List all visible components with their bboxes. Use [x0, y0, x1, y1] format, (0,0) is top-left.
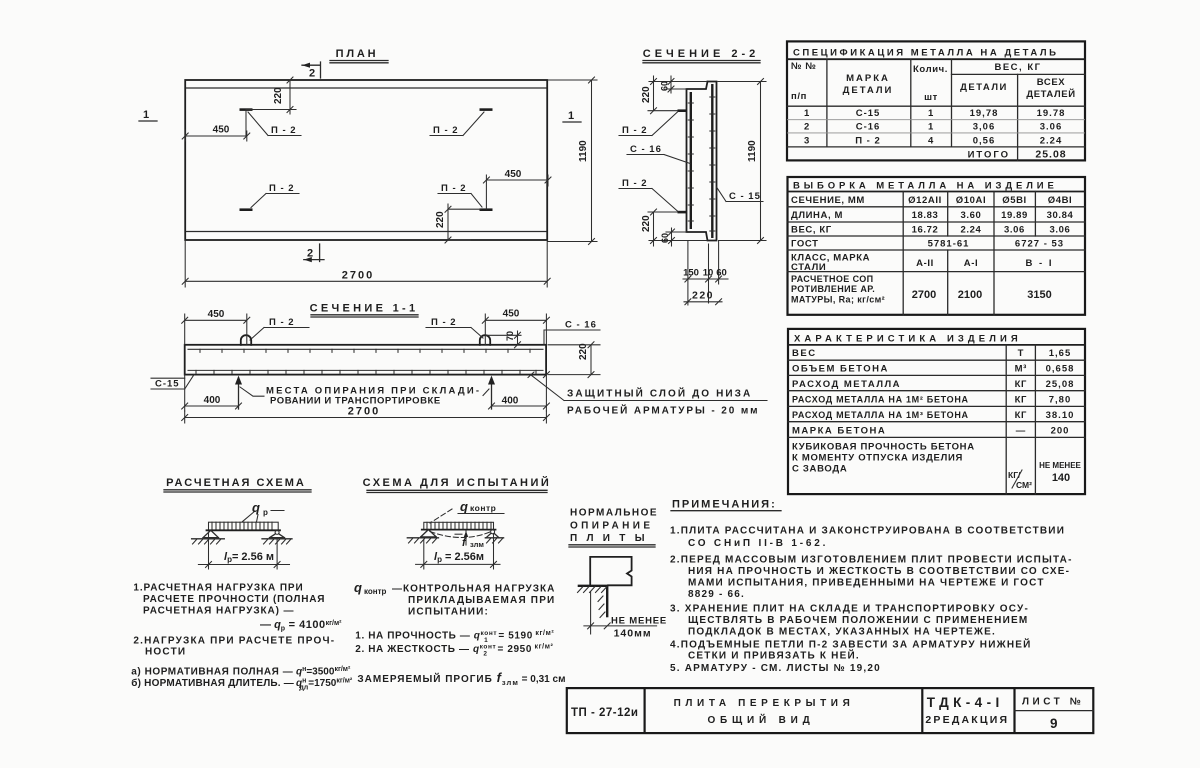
table 1 header rule: [787, 105, 1085, 107]
plan slab outline: [185, 80, 547, 240]
dim 60 top of section: [666, 76, 687, 93]
dim 450 right plan: [486, 175, 548, 209]
svg-text:злм: злм: [470, 540, 484, 549]
svg-text:РАСХОД МЕТАЛЛА: РАСХОД МЕТАЛЛА: [792, 379, 901, 390]
svg-text:30.84: 30.84: [1047, 210, 1074, 221]
svg-text:СТАЛИ: СТАЛИ: [791, 262, 826, 273]
svg-text:q: q: [460, 499, 468, 514]
svg-text:НЕ МЕНЕЕ: НЕ МЕНЕЕ: [611, 616, 667, 627]
svg-text:220: 220: [692, 290, 714, 302]
svg-text:ОБЩИЙ ВИД: ОБЩИЙ ВИД: [707, 713, 814, 726]
test right support: [491, 530, 495, 534]
svg-text:СМ²: СМ²: [1016, 480, 1032, 490]
label C-15 left with leader: [151, 375, 194, 389]
dim 450 right of section 1-1: [485, 314, 546, 345]
svg-text:КУБИКОВАЯ ПРОЧНОСТЬ БЕТОНА: КУБИКОВАЯ ПРОЧНОСТЬ БЕТОНА: [792, 442, 975, 453]
calc load strip hatching: [212, 522, 272, 530]
svg-text:Ø10АI: Ø10АI: [956, 195, 986, 206]
bearing dimension: [584, 592, 657, 634]
bearing wall top line: [578, 585, 608, 587]
svg-text:200: 200: [1051, 426, 1070, 437]
dim 1190 right plan: [548, 80, 597, 242]
table 1 vec kg split rule: [952, 73, 1086, 75]
svg-text:СЕТКИ И ПРИВЯЗАТЬ К Н: СЕТКИ И ПРИВЯЗАТЬ К НЕЙ.: [688, 649, 860, 662]
table 3 title rule: [788, 344, 1085, 346]
svg-text:СХЕМА ДЛЯ ИСПЫТАНИЙ: СХЕМА ДЛЯ ИСПЫТАНИЙ: [363, 476, 552, 489]
lifting loop mark bottom-right: [480, 208, 493, 211]
svg-text:8829 - 66.: 8829 - 66.: [688, 589, 745, 600]
section mark 2 bottom: [304, 244, 324, 262]
svg-text:450: 450: [213, 125, 230, 136]
dim 450 left of section 1-1: [185, 314, 247, 345]
svg-text:220: 220: [578, 343, 589, 360]
svg-text:ИСПЫТАНИИ:: ИСПЫТАНИИ:: [408, 607, 489, 618]
svg-text:1190: 1190: [578, 140, 589, 162]
svg-text:ПОДКЛАДОК В МЕСТАХ, УКАЗАННЫ: ПОДКЛАДОК В МЕСТАХ, УКАЗАННЫХ НА ЧЕРТЕЖЕ…: [688, 627, 996, 638]
svg-text:СЕЧЕНИЕ 1-1: СЕЧЕНИЕ 1-1: [310, 303, 419, 315]
svg-text:ВЫБОРКА МЕТАЛЛА НА ИЗДЕЛИЕ: ВЫБОРКА МЕТАЛЛА НА ИЗДЕЛИЕ: [793, 181, 1058, 192]
svg-text:р: р: [263, 508, 268, 517]
svg-text:ХАРАКТЕРИСТИКА ИЗДЕЛИЯ: ХАРАКТЕРИСТИКА ИЗДЕЛИЯ: [794, 334, 1022, 345]
svg-text:МАРКА: МАРКА: [846, 73, 890, 84]
svg-text:5781-61: 5781-61: [928, 239, 970, 250]
plan inner rib line bottom: [187, 231, 547, 233]
beam bottom rebar ticks: [196, 370, 536, 373]
beam outline: [185, 345, 546, 375]
section mark 2 top: [302, 62, 321, 78]
svg-text:2700: 2700: [342, 270, 374, 282]
svg-text:6727 - 53: 6727 - 53: [1015, 239, 1064, 250]
svg-text:400: 400: [204, 395, 221, 406]
PLAN GROUP: [139, 48, 597, 287]
beam bottom rebar line: [188, 369, 543, 371]
dim 70 loop height: [485, 331, 521, 345]
dim 60 bottom of section: [666, 228, 687, 246]
svg-text:19,78: 19,78: [970, 108, 999, 119]
svg-text:60: 60: [660, 233, 670, 243]
svg-text:РОТИВЛЕНИЕ АР.: РОТИВЛЕНИЕ АР.: [791, 284, 875, 294]
svg-text:19.89: 19.89: [1001, 210, 1028, 221]
svg-text:q: q: [252, 500, 260, 515]
svg-text:2.24: 2.24: [1040, 136, 1063, 147]
svg-text:СЕЧЕНИЕ, ММ: СЕЧЕНИЕ, ММ: [791, 195, 865, 206]
SCHEMES GROUP: [131, 476, 565, 692]
dim 1190 right of section: [718, 82, 766, 241]
table 2 title rule: [788, 191, 1086, 193]
svg-text:450: 450: [503, 309, 520, 320]
svg-text:П - 2: П - 2: [433, 125, 459, 136]
svg-text:3150: 3150: [1027, 289, 1051, 301]
svg-text:Т: Т: [1018, 348, 1024, 359]
svg-text:19.78: 19.78: [1037, 108, 1066, 119]
svg-text:—: —: [1016, 426, 1026, 437]
support arrow left: [238, 383, 240, 409]
beam top rebar line: [188, 348, 543, 350]
dim 220 top-left of section: [648, 76, 706, 111]
svg-text:ПРИКЛАДЫВАЕМАЯ ПРИ: ПРИКЛАДЫВАЕМАЯ ПРИ: [408, 595, 555, 606]
svg-text:А-I: А-I: [964, 258, 978, 269]
calc span dimension: [198, 532, 289, 569]
svg-text:0,658: 0,658: [1046, 364, 1075, 375]
svg-text:контр: контр: [364, 587, 387, 596]
svg-text:7,80: 7,80: [1049, 395, 1072, 406]
svg-text:3: 3: [804, 136, 810, 147]
svg-text:ВЕС, КГ: ВЕС, КГ: [994, 62, 1041, 73]
lifting loop mark top-left: [240, 108, 253, 111]
table 3 row rules: [788, 360, 1085, 437]
dim 220 right of section 1-1: [548, 345, 600, 375]
table 2 metal outer box: [788, 177, 1086, 315]
rebar C-16 tick marks: [688, 103, 693, 221]
svg-text:140: 140: [1052, 472, 1070, 484]
lifting loop left on beam: [241, 335, 251, 345]
svg-text:КГ: КГ: [1015, 395, 1027, 406]
plan inner rib line top: [187, 87, 547, 89]
svg-text:П - 2: П - 2: [269, 183, 295, 194]
table 3 column lines: [1006, 345, 1035, 494]
svg-text:1,65: 1,65: [1049, 348, 1072, 359]
svg-text:lр = 2.56м: lр = 2.56м: [434, 551, 484, 564]
svg-text:контр: контр: [470, 503, 496, 513]
svg-text:НИЯ НА ПРОЧНОСТЬ И ЖЕСТКОСТ: НИЯ НА ПРОЧНОСТЬ И ЖЕСТКОСТЬ В СООТВЕТСТ…: [688, 566, 1070, 577]
support arrow right: [491, 383, 493, 409]
svg-text:ДЛИНА, М: ДЛИНА, М: [791, 210, 843, 221]
svg-text:1: 1: [928, 108, 934, 119]
svg-text:140мм: 140мм: [614, 628, 652, 640]
rebar C-15 tick marks: [710, 97, 715, 231]
svg-text:25,08: 25,08: [1046, 379, 1075, 390]
svg-text:38.10: 38.10: [1046, 410, 1075, 421]
svg-text:М³: М³: [1015, 364, 1027, 375]
svg-text:С - 16: С - 16: [565, 320, 597, 331]
svg-text:ЛИСТ №: ЛИСТ №: [1022, 697, 1084, 708]
calc scheme title underline: [164, 490, 311, 492]
table 1 title rule: [787, 58, 1085, 60]
svg-text:Ø4ВI: Ø4ВI: [1048, 195, 1073, 206]
deflection arrow f zlm: [465, 531, 467, 545]
TITLEBLOCK GROUP: [567, 688, 1094, 733]
svg-text:МАТУРЫ, Ra; кг/см²: МАТУРЫ, Ra; кг/см²: [791, 295, 885, 305]
dim 220 bottom-left of section: [648, 212, 707, 246]
svg-text:НОРМАЛЬНОЕ: НОРМАЛЬНОЕ: [570, 508, 658, 519]
svg-text:2.24: 2.24: [961, 225, 982, 236]
calc load strip: [209, 522, 279, 530]
svg-text:220: 220: [273, 87, 284, 104]
svg-text:б) НОРМАТИВНАЯ ДЛИТЕЛЬ. —: б) НОРМАТИВНАЯ ДЛИТЕЛЬ. —: [131, 677, 294, 689]
calc beam line: [207, 529, 281, 531]
svg-text:3. ХРАНЕНИЕ ПЛИТ НА СКЛАДЕ: 3. ХРАНЕНИЕ ПЛИТ НА СКЛАДЕ И ТРАНСПОРТИР…: [670, 604, 1029, 615]
svg-text:25.08: 25.08: [1035, 149, 1066, 161]
svg-text:ПЛАН: ПЛАН: [336, 48, 379, 60]
svg-text:1.РАСЧЕТНАЯ НАГРУЗКА ПРИ: 1.РАСЧЕТНАЯ НАГРУЗКА ПРИ: [133, 583, 303, 594]
svg-text:СПЕЦИФИКАЦИЯ МЕТАЛЛА НА ДЕТ: СПЕЦИФИКАЦИЯ МЕТАЛЛА НА ДЕТАЛЬ: [793, 48, 1059, 59]
svg-text:10: 10: [703, 268, 714, 279]
svg-text:1: 1: [928, 122, 934, 133]
svg-text:А-II: А-II: [916, 258, 934, 269]
svg-text:П - 2: П - 2: [855, 136, 881, 147]
svg-text:9: 9: [1050, 716, 1058, 731]
section 1-1 title underline: [311, 315, 418, 317]
dim 220 bottom-right vertical: [448, 204, 481, 240]
svg-text:ИТОГО: ИТОГО: [968, 150, 1010, 161]
lifting loop right on beam: [480, 335, 490, 345]
NOTES GROUP: [670, 499, 1073, 675]
svg-text:РАСЧЕТЕ ПРОЧНОСТИ (ПОЛНАЯ: РАСЧЕТЕ ПРОЧНОСТИ (ПОЛНАЯ: [143, 594, 325, 605]
svg-text:МАМИ ИСПЫТАНИЯ, ПРИВЕДЕННЫМИ: МАМИ ИСПЫТАНИЯ, ПРИВЕДЕННЫМИ НА ЧЕРТЕЖЕ …: [688, 578, 1045, 589]
svg-text:ТДК-4-I: ТДК-4-I: [927, 695, 1004, 710]
dim 2700 bottom plan: [185, 240, 547, 287]
svg-text:1.ПЛИТА РАССЧИТАНА И ЗАКОНСТР: 1.ПЛИТА РАССЧИТАНА И ЗАКОНСТРУИРОВАНА В …: [670, 526, 1065, 537]
svg-text:220: 220: [435, 211, 446, 228]
svg-text:Колич.: Колич.: [913, 64, 948, 75]
svg-text:Ø5ВI: Ø5ВI: [1002, 195, 1027, 206]
test right support ground: [485, 537, 503, 539]
calc left support ground: [192, 538, 225, 540]
svg-text:ДЕТАЛИ: ДЕТАЛИ: [843, 85, 894, 96]
svg-text:СЕЧЕНИЕ 2-2: СЕЧЕНИЕ 2-2: [643, 48, 760, 60]
svg-text:5. АРМАТУРУ - СМ. ЛИСТЫ №: 5. АРМАТУРУ - СМ. ЛИСТЫ № 19,20: [670, 663, 881, 674]
deflection dashed curve: [430, 532, 491, 538]
dim 400 left: [185, 375, 239, 411]
svg-text:3,06: 3,06: [973, 122, 996, 133]
svg-text:60: 60: [716, 268, 727, 279]
test load strip: [424, 522, 494, 529]
svg-text:ВЕС: ВЕС: [792, 348, 817, 359]
svg-text:РАБОЧЕЙ АРМАТУРЫ - 20 мм: РАБОЧЕЙ АРМАТУРЫ - 20 мм: [567, 404, 759, 417]
svg-text:2: 2: [804, 122, 810, 133]
q kontr dashed leader: [430, 509, 452, 523]
svg-text:2.НАГРУЗКА ПРИ РАСЧЕТЕ ПРОЧ-: 2.НАГРУЗКА ПРИ РАСЧЕТЕ ПРОЧ-: [133, 636, 335, 647]
table 3 characteristics outer box: [788, 329, 1085, 494]
test left support ground: [407, 537, 438, 539]
svg-text:3.60: 3.60: [961, 210, 982, 221]
svg-text:РАСЧЕТНАЯ СХЕМА: РАСЧЕТНАЯ СХЕМА: [166, 477, 306, 489]
plan title underline: [330, 61, 388, 63]
dim 400 right: [492, 375, 547, 411]
lifting loop top in section: [678, 109, 687, 112]
svg-text:2: 2: [309, 68, 315, 80]
svg-text:18.83: 18.83: [912, 210, 939, 221]
table 2 row rules: [788, 207, 1086, 272]
svg-text:П - 2: П - 2: [622, 178, 648, 189]
table 1 column lines: [827, 59, 1018, 160]
table 2 column lines: [903, 192, 1035, 315]
bearing slab outline with break: [590, 557, 631, 585]
svg-text:2РЕДАКЦИЯ: 2РЕДАКЦИЯ: [925, 714, 1009, 726]
svg-text:П - 2: П - 2: [269, 317, 295, 328]
svg-text:П - 2: П - 2: [441, 183, 467, 194]
dim 220 top-left vertical: [246, 80, 296, 136]
svg-text:П - 2: П - 2: [622, 125, 648, 136]
svg-text:КГ: КГ: [1015, 410, 1027, 421]
svg-text:3.06: 3.06: [1040, 122, 1063, 133]
svg-text:ДЕТАЛЕЙ: ДЕТАЛЕЙ: [1026, 88, 1075, 100]
svg-text:2: 2: [307, 248, 313, 260]
svg-text:16.72: 16.72: [912, 225, 939, 236]
svg-text:ПЛИТА ПЕРЕКРЫТИЯ: ПЛИТА ПЕРЕКРЫТИЯ: [674, 698, 855, 709]
svg-text:ДЕТАЛИ: ДЕТАЛИ: [960, 82, 1008, 93]
svg-text:3.06: 3.06: [1004, 225, 1025, 236]
test left support: [421, 530, 437, 537]
title block dividers: [645, 688, 1015, 733]
svg-text:МАРКА БЕТОНА: МАРКА БЕТОНА: [792, 426, 886, 437]
svg-text:3.06: 3.06: [1050, 225, 1071, 236]
svg-text:П - 2: П - 2: [431, 317, 457, 328]
svg-text:РАСХОД МЕТАЛЛА НА 1М³ БЕТОН: РАСХОД МЕТАЛЛА НА 1М³ БЕТОНА: [792, 410, 969, 420]
svg-text:ПРИМЕЧАНИЯ:: ПРИМЕЧАНИЯ:: [672, 499, 777, 511]
svg-text:РАСХОД МЕТАЛЛА НА 1М² БЕТО: РАСХОД МЕТАЛЛА НА 1М² БЕТОНА: [792, 395, 969, 405]
svg-text:—КОНТРОЛЬНАЯ НАГРУЗКА: —КОНТРОЛЬНАЯ НАГРУЗКА: [392, 584, 555, 595]
test span dimension: [416, 534, 500, 569]
lifting loop bottom in section: [678, 211, 687, 214]
rebar mesh C-15 bar: [711, 84, 713, 238]
svg-text:а) НОРМАТИВНАЯ ПОЛНАЯ —: а) НОРМАТИВНАЯ ПОЛНАЯ —: [131, 667, 293, 678]
svg-text:шт: шт: [924, 92, 938, 103]
dim 150 10 60 below section: [683, 241, 728, 306]
svg-text:НЕ МЕНЕЕ: НЕ МЕНЕЕ: [1039, 461, 1081, 470]
svg-text:1: 1: [143, 109, 149, 121]
BEARING GROUP: [569, 508, 667, 640]
svg-text:ОПИРАНИЕ: ОПИРАНИЕ: [570, 521, 653, 532]
svg-text:2700: 2700: [912, 289, 936, 301]
svg-text:1190: 1190: [747, 140, 758, 162]
svg-text:ОБЪЕМ БЕТОНА: ОБЪЕМ БЕТОНА: [792, 364, 889, 375]
SECTION 1-1 GROUP: [151, 303, 767, 424]
svg-text:п/п: п/п: [791, 91, 807, 102]
svg-text:400: 400: [502, 396, 519, 407]
svg-text:С - 15: С - 15: [729, 191, 761, 202]
svg-text:ЗАЩИТНЫЙ СЛОЙ ДО НИЗА: ЗАЩИТНЫЙ СЛОЙ ДО НИЗА: [567, 387, 752, 400]
svg-text:60: 60: [660, 81, 670, 91]
beam top rebar ticks: [200, 349, 530, 352]
svg-text:2.ПЕРЕД МАССОВЫМ ИЗГОТОВЛЕНИЕ: 2.ПЕРЕД МАССОВЫМ ИЗГОТОВЛЕНИЕМ ПЛИТ ПРОВ…: [670, 555, 1073, 566]
test beam line: [422, 529, 496, 531]
svg-text:С-16: С-16: [856, 122, 881, 133]
dim 220 bottom of section: [684, 301, 722, 303]
svg-text:220: 220: [641, 215, 652, 232]
svg-text:С - 16: С - 16: [630, 144, 662, 155]
title block outer box: [567, 688, 1094, 733]
svg-text:ТП - 27-12и: ТП - 27-12и: [571, 707, 639, 719]
table 1 spec outer box: [787, 41, 1085, 160]
SECTION 2-2 GROUP: [619, 48, 766, 305]
calc right support: [275, 530, 279, 534]
svg-text:0,56: 0,56: [973, 136, 996, 147]
lifting loop mark bottom-left: [240, 208, 253, 211]
protective layer leader: [531, 375, 767, 401]
svg-text:СО СНиП II-В 1-62.: СО СНиП II-В 1-62.: [688, 538, 828, 549]
svg-text:450: 450: [505, 169, 522, 180]
calc left support: [203, 530, 219, 537]
table 1 row rules: [787, 120, 1085, 133]
svg-text:ПЛИТЫ: ПЛИТЫ: [570, 533, 654, 544]
svg-text:lр= 2.56 м: lр= 2.56 м: [224, 551, 274, 564]
section 2-2 slab outline: [687, 82, 717, 241]
svg-text:РАСЧЕТНАЯ НАГРУЗКА) —: РАСЧЕТНАЯ НАГРУЗКА) —: [143, 605, 294, 616]
section 2-2 title underline: [643, 61, 760, 63]
svg-text:ЩЕСТВЛЯТЬ В РАБОЧЕМ ПОЛОЖЕН: ЩЕСТВЛЯТЬ В РАБОЧЕМ ПОЛОЖЕНИИ С ПРИМЕНЕН…: [688, 615, 1028, 626]
bearing wall face line: [606, 586, 608, 618]
svg-text:220: 220: [641, 86, 652, 103]
svg-text:ВСЕХ: ВСЕХ: [1037, 77, 1065, 88]
svg-text:150: 150: [683, 268, 699, 279]
qp label with leader: [242, 511, 284, 523]
bearing heading underline: [569, 545, 655, 547]
svg-text:ВЕС, КГ: ВЕС, КГ: [791, 225, 832, 236]
svg-text:Ø12АII: Ø12АII: [908, 195, 942, 206]
svg-text:В - I: В - I: [1026, 258, 1054, 269]
svg-text:4.ПОДЪЕМНЫЕ ПЕТЛИ П-2 ЗАВЕСТ: 4.ПОДЪЕМНЫЕ ПЕТЛИ П-2 ЗАВЕСТИ ЗА АРМАТУР…: [670, 638, 1032, 651]
bearing wall hatching: [578, 587, 608, 618]
calc right support ground: [262, 538, 292, 540]
dim 450 left plan: [185, 130, 247, 141]
svg-text:q: q: [354, 580, 362, 595]
svg-text:450: 450: [208, 309, 225, 320]
svg-text:С-15: С-15: [155, 379, 180, 390]
svg-text:1: 1: [804, 108, 810, 119]
svg-text:С-15: С-15: [856, 108, 881, 119]
svg-text:1: 1: [568, 110, 574, 122]
svg-text:РАСЧЕТНОЕ СОП: РАСЧЕТНОЕ СОП: [791, 274, 874, 284]
svg-text:К МОМЕНТУ ОТПУСКА ИЗДЕЛИЯ: К МОМЕНТУ ОТПУСКА ИЗДЕЛИЯ: [792, 453, 963, 464]
svg-text:2700: 2700: [348, 406, 380, 418]
svg-text:КГ: КГ: [1015, 379, 1027, 390]
svg-text:П - 2: П - 2: [271, 125, 297, 136]
svg-text:70: 70: [505, 331, 515, 341]
svg-text:НОСТИ: НОСТИ: [145, 647, 186, 658]
svg-text:4: 4: [928, 136, 934, 147]
svg-text:С ЗАВОДА: С ЗАВОДА: [792, 464, 847, 475]
TABLES GROUP: [787, 41, 1085, 494]
svg-text:2100: 2100: [958, 289, 982, 301]
svg-text:№ №: № №: [791, 61, 817, 72]
svg-text:ГОСТ: ГОСТ: [791, 239, 818, 250]
lifting loop mark top-right: [480, 108, 493, 111]
rebar mesh C-16 bar: [690, 92, 692, 229]
test load strip hatching: [427, 522, 491, 529]
dim 2700 bottom section 1-1: [185, 411, 547, 423]
test scheme title underline: [367, 490, 547, 492]
